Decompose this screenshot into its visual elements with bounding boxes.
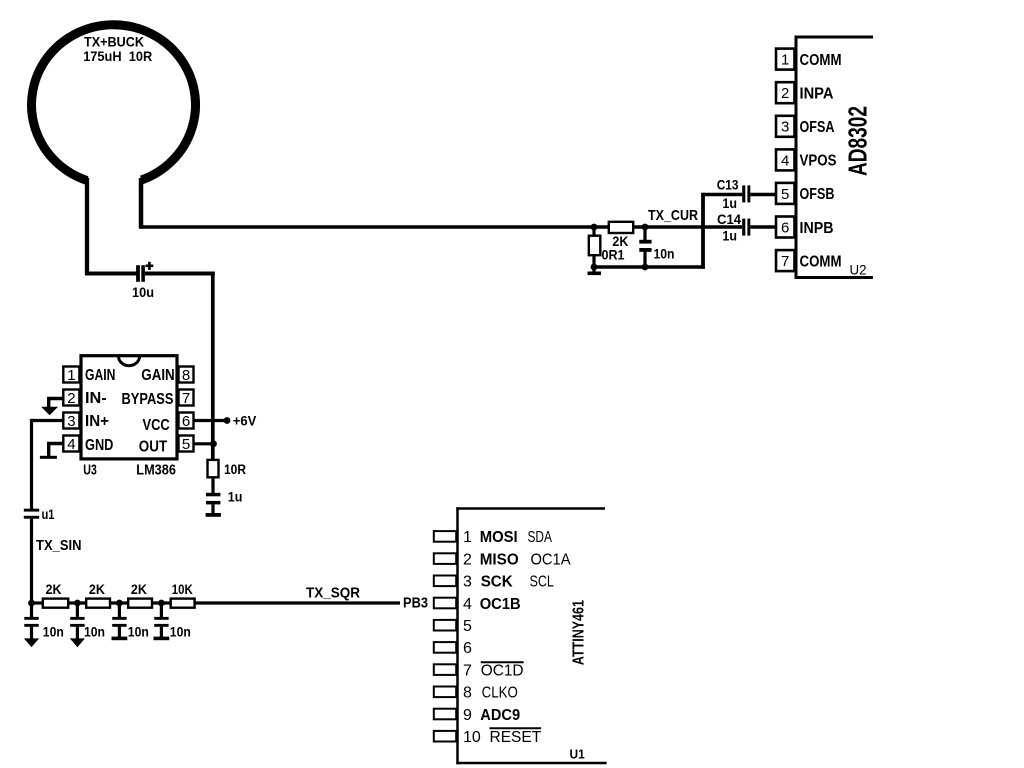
wire pin2 to ground [47,397,63,400]
svg-text:INPA: INPA [800,86,834,103]
U2 pin 5 box [776,183,795,204]
svg-text:1u: 1u [228,488,243,504]
svg-text:8: 8 [182,367,190,384]
svg-text:AD8302: AD8302 [842,106,872,176]
capacitor 10n a [30,603,33,617]
wire C10u to corner [145,272,215,276]
svg-text:IN+: IN+ [85,413,109,430]
U1 pin 8 box [434,687,456,698]
svg-text:3: 3 [781,119,789,136]
svg-text:COMM: COMM [800,52,842,69]
svg-text:10: 10 [463,729,481,746]
wire pin3 to TX_SIN [32,419,64,422]
wire 10R to 1u [211,477,214,493]
capacitor 10u [136,265,140,282]
svg-text:SCL: SCL [530,574,554,591]
svg-text:6: 6 [463,640,472,657]
wire TX_SQR to PB3 [194,601,400,604]
svg-text:5: 5 [781,186,789,203]
U2 pin 3 box [776,116,795,137]
svg-text:MISO: MISO [480,551,519,568]
wire rail seg2 [68,601,88,604]
node dot rail 2 [74,600,81,607]
svg-text:6: 6 [781,219,789,236]
wire u1 to rail TX_SIN [30,519,33,605]
svg-text:C14: C14 [717,211,741,227]
svg-text:ATTINY461: ATTINY461 [570,600,587,665]
svg-text:u1: u1 [42,506,55,522]
svg-text:GAIN: GAIN [141,367,174,384]
svg-text:OC1B: OC1B [480,596,521,613]
svg-text:7: 7 [182,390,190,407]
IC U2 AD8302 body [795,36,874,39]
svg-text:BYPASS: BYPASS [122,391,174,408]
capacitor 10n c [118,603,121,617]
wire rail seg1 [32,601,44,604]
U3 pin 7 box [179,390,194,406]
resistor 10R [208,460,219,477]
svg-text:10n: 10n [170,624,191,640]
node dot TX_CUR right [642,224,649,231]
U1 pin 5 box [434,620,456,631]
U1 overline RESET [490,727,542,729]
capacitor 10n at TX_CUR [643,227,646,240]
U2 pin 4 box [776,149,795,170]
U1 pin 9 box [434,709,456,720]
svg-text:INPB: INPB [800,220,834,237]
node dot +6V [224,417,231,424]
svg-text:OUT: OUT [139,439,168,456]
svg-text:10n: 10n [43,624,64,640]
wire vertical up to C13 [701,193,705,269]
svg-text:GAIN: GAIN [85,367,115,384]
capacitor 1u output [206,493,220,497]
capacitor 10n d [160,603,163,617]
inductor L1 coil TX+BUCK [32,25,196,181]
node dot rail 4 [158,600,165,607]
wire coil left lead [85,178,89,275]
capacitor 10n b [76,603,79,617]
svg-text:+6V: +6V [233,413,257,429]
resistor 2K c [128,599,152,608]
svg-text:10n: 10n [128,624,149,640]
resistor 0R1 vertical [592,227,595,237]
svg-text:9: 9 [463,707,472,724]
svg-text:0R1: 0R1 [602,247,625,263]
svg-text:TX_SIN: TX_SIN [36,537,82,554]
U3 pin 4 box [63,436,79,452]
U1 pin 3 box [434,576,456,587]
svg-text:2K: 2K [89,581,105,597]
node dot OUT [210,440,217,447]
svg-text:3: 3 [463,574,472,591]
U3 pin 1 box [63,367,79,383]
svg-text:7: 7 [463,662,472,679]
IC U1 ATTINY461 body [456,507,605,510]
svg-text:2: 2 [67,390,75,407]
svg-text:U3: U3 [83,462,97,479]
ground bar under 0R1 [592,267,595,272]
svg-text:3: 3 [67,413,75,430]
capacitor C13 [742,185,745,202]
svg-text:CLKO: CLKO [482,685,518,702]
svg-text:OFSB: OFSB [800,186,835,203]
svg-text:2: 2 [463,551,472,568]
svg-text:SDA: SDA [528,529,553,546]
svg-text:2K: 2K [131,581,147,597]
ground arrow at pin2 [41,407,58,416]
svg-text:C13: C13 [717,177,739,193]
svg-text:SCK: SCK [481,574,513,591]
U2 pin 6 box [776,217,795,238]
node dot gnd rail [642,264,649,271]
U1 pin 1 box [434,531,456,542]
svg-text:10n: 10n [654,245,675,261]
ground arrow cap b [70,638,85,647]
wire 1u to ground [211,504,214,513]
svg-text:OFSA: OFSA [800,119,835,136]
U3 pin 6 box [179,413,194,429]
ground bar cap d [154,637,170,641]
wire ground rail to C13 branch [594,265,705,269]
svg-text:VCC: VCC [143,417,171,434]
svg-text:4: 4 [781,152,789,169]
wire 2K to C14 [633,225,743,229]
svg-text:10R: 10R [224,461,246,477]
svg-text:2K: 2K [46,581,62,597]
U1 pin 10 box [434,731,456,742]
svg-text:ADC9: ADC9 [480,707,520,724]
U3 pin 2 box [63,390,79,406]
svg-text:U2: U2 [850,262,867,278]
IC U3 LM386 body [81,356,177,459]
svg-text:10n: 10n [84,624,105,640]
svg-text:GND: GND [85,437,113,454]
svg-text:8: 8 [463,685,472,702]
node dot rail 1 [28,600,35,607]
node dot 0R1 bottom [591,264,598,271]
ground arrow cap a [24,638,39,647]
svg-text:U1: U1 [570,746,585,761]
wire coil right lead [139,178,144,229]
wire rail seg4 [152,601,172,604]
svg-text:6: 6 [182,413,190,430]
U3 top notch [119,356,140,366]
ground bar cap c [112,637,128,641]
wire coil to C10u [85,272,137,276]
resistor 10K [171,599,195,608]
node dot TX_CUR left [591,224,598,231]
ground bar under 1u [206,513,221,517]
U2 pin 2 box [776,82,795,103]
svg-text:1: 1 [67,367,75,384]
node dot rail 3 [116,600,123,607]
U2 pin 7 box [776,250,795,271]
U1 pin 2 box [434,553,456,564]
capacitor u1 [24,509,39,512]
U1 pin 4 box [434,598,456,609]
svg-text:LM386: LM386 [136,462,176,479]
ground bar at pin4 [40,456,57,459]
svg-text:1u: 1u [722,227,737,243]
svg-text:MOSI: MOSI [480,529,518,546]
svg-text:OC1A: OC1A [531,551,571,568]
wire pin4 to ground [47,442,63,445]
svg-text:1u: 1u [722,195,737,211]
svg-text:IN-: IN- [85,390,107,407]
svg-text:1: 1 [781,52,789,69]
polarity plus of 10u [146,264,154,267]
U3 pin 3 box [63,413,79,429]
svg-text:COMM: COMM [800,253,842,270]
resistor 2K a [43,599,68,608]
wire pin6 VCC to +6V [194,419,226,422]
U1 pin 6 box [434,642,456,653]
U1 overline OC1D [481,661,524,663]
wire C13 to pin5 [750,193,776,197]
svg-text:4: 4 [463,596,472,613]
svg-text:OC1D: OC1D [481,662,524,679]
U3 pin 8 box [179,367,194,383]
svg-text:10K: 10K [172,581,193,597]
svg-text:TX_SQR: TX_SQR [306,584,360,601]
U1 pin 7 box [434,664,456,675]
wire rail seg3 [110,601,130,604]
svg-text:7: 7 [781,253,789,270]
U2 pin 1 box [776,49,795,70]
capacitor C14 [742,219,745,236]
svg-text:4: 4 [67,436,75,453]
svg-text:10u: 10u [132,284,154,300]
svg-text:1: 1 [463,529,472,546]
svg-text:PB3: PB3 [403,594,428,611]
svg-text:2: 2 [781,85,789,102]
resistor 2K b [86,599,110,608]
svg-text:175uH 10R: 175uH 10R [83,48,152,64]
svg-text:TX_CUR: TX_CUR [648,207,698,224]
wire vertical to R 10R [211,272,215,461]
svg-text:VPOS: VPOS [800,153,837,170]
wire to C13 [703,193,742,197]
U3 pin 5 box [179,436,194,452]
wire TX net long horizontal [140,225,610,229]
wire C14 to pin6 [750,225,776,229]
svg-text:RESET: RESET [490,729,542,746]
wire pin5 OUT [194,442,215,445]
svg-text:5: 5 [182,436,190,453]
svg-text:5: 5 [463,618,472,635]
resistor 2K horizontal [609,222,633,233]
